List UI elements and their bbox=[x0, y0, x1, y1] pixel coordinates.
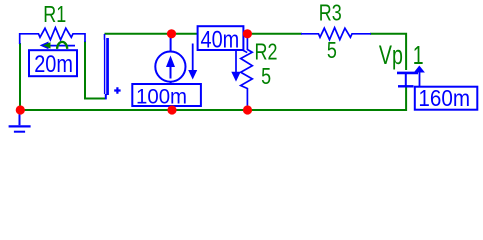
ground stem bbox=[19, 113, 21, 125]
svg-text:R3: R3 bbox=[319, 1, 342, 27]
svg-text:Vp: Vp bbox=[379, 40, 403, 70]
value box 40m bbox=[198, 26, 244, 50]
node dot bottom at current source bbox=[167, 105, 176, 114]
battery plus sign bbox=[114, 87, 120, 93]
wire bottom rail with right corner up to probe bbox=[20, 87, 406, 110]
resistor R1 (zigzag with bent leads) bbox=[20, 28, 85, 44]
wire left loop left edge bbox=[19, 43, 21, 110]
value box 100m bbox=[132, 84, 201, 106]
svg-text:5: 5 bbox=[327, 38, 337, 64]
ground bar 1 bbox=[9, 125, 31, 127]
node dot top at R2 bbox=[243, 29, 252, 38]
wire top rail right segment from R3 to corner and down to probe bbox=[370, 34, 406, 70]
current annotation down-arrow left of R2 bbox=[235, 50, 237, 72]
leader line from 40m box corner to R2 bbox=[243, 50, 248, 53]
svg-text:1: 1 bbox=[413, 40, 424, 69]
value box 20m bbox=[29, 50, 77, 76]
wire top rail left segment from battery to R3 bbox=[105, 33, 303, 35]
voltage pin probe top bar bbox=[397, 72, 418, 75]
svg-text:R1: R1 bbox=[43, 2, 66, 28]
green probe arrowhead over R1 arrow bbox=[43, 42, 51, 48]
resistor R2 (vertical zigzag) bbox=[241, 35, 253, 110]
battery V1 top stub bbox=[104, 34, 106, 40]
battery V1 bottom foot bbox=[105, 94, 107, 99]
voltage pin probe up-arrow bbox=[419, 71, 421, 88]
voltage pin probe stem bbox=[405, 73, 407, 86]
node dot bottom left (ground) bbox=[16, 105, 25, 114]
svg-text:R2: R2 bbox=[255, 40, 278, 66]
svg-text:20m: 20m bbox=[34, 50, 73, 77]
current source I1 inner arrow bbox=[170, 62, 172, 79]
node dot bottom at R2 bbox=[243, 105, 252, 114]
voltage pin probe bottom bar bbox=[398, 85, 414, 87]
battery V1 right plate bbox=[106, 38, 109, 95]
current source I1 bottom stub bbox=[170, 82, 172, 110]
current arrow for R1 (blue line + blue head) bbox=[47, 45, 75, 47]
svg-text:160m: 160m bbox=[418, 85, 470, 111]
svg-text:5: 5 bbox=[261, 64, 271, 90]
ground bar 2 bbox=[14, 131, 25, 133]
svg-text:100m: 100m bbox=[136, 85, 187, 109]
battery V1 left plate bbox=[104, 39, 105, 94]
node dot top at current source bbox=[167, 29, 176, 38]
wire left loop right edge bbox=[84, 41, 86, 99]
svg-text:40m: 40m bbox=[201, 26, 240, 53]
green probe loop (arch) on R1 arrow bbox=[57, 42, 67, 49]
resistor R3 (horizontal zigzag) bbox=[301, 28, 371, 40]
current source I1 circle bbox=[155, 52, 185, 82]
current source I1 top stub bbox=[170, 34, 172, 51]
current annotation down-arrow beside I1 bbox=[192, 44, 194, 72]
value box 160m bbox=[415, 87, 478, 110]
wire jog from loop to battery bottom bbox=[84, 98, 106, 100]
